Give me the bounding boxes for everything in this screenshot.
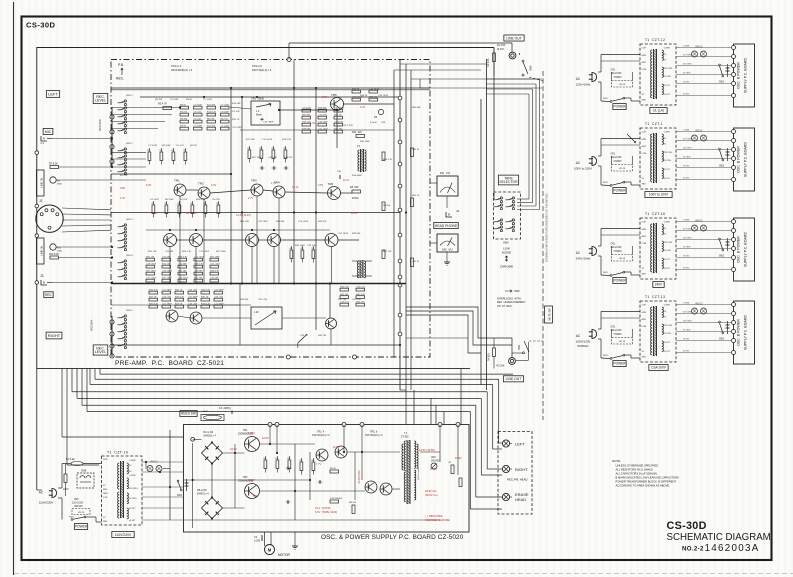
ground at meter [446,252,448,262]
svg-text:C14 10/16: C14 10/16 [298,221,309,223]
svg-text:25V ORG: 25V ORG [129,488,138,490]
svg-text:M2 VU: M2 VU [442,248,452,252]
small components osc board [264,460,267,469]
svg-text:R31 10K: R31 10K [146,257,155,259]
transistor TR3 [251,184,263,196]
svg-text:SW1: SW1 [603,355,609,357]
svg-text:R36 3K: R36 3K [360,95,368,97]
SW4 switch top [519,53,521,55]
REC/PB switch cluster top [124,100,126,102]
svg-text:OSC. B POWER: OSC. B POWER [737,319,741,346]
pre-amp board dashed outline [111,60,430,358]
LINE OUT label top [504,35,524,41]
svg-text:C17 .0022: C17 .0022 [199,251,210,253]
svg-text:R42 100: R42 100 [356,302,365,304]
svg-text:R13 56K: R13 56K [232,103,241,105]
svg-text:( ) INDICATES: ( ) INDICATES [425,514,443,518]
svg-text:T1 CZT-1: T1 CZT-1 [645,122,663,126]
svg-text:(IN4001 x 4: (IN4001 x 4 [204,435,217,438]
svg-text:R40 5.6K: R40 5.6K [356,294,366,296]
svg-text:0.2V: 0.2V [360,106,365,109]
line out top wire [289,42,512,44]
component cluster: rec eq network top right [302,109,311,112]
svg-text:OSC. B POWER: OSC. B POWER [737,62,741,89]
right cluster near TR5 [352,90,361,93]
svg-text:0V T-GRN: 0V T-GRN [683,55,693,57]
svg-text:F1 0.3A: F1 0.3A [66,458,75,461]
svg-text:POWER TRANSFORMER BLOCK IS DIF: POWER TRANSFORMER BLOCK IS DIFFERENT [616,480,677,484]
LINE IN label (right ch) [37,238,45,264]
svg-text:D1 to D4: D1 to D4 [204,431,214,434]
svg-text:R47 22K: R47 22K [383,251,392,253]
svg-text:R41 10K: R41 10K [338,299,347,301]
svg-text:C23 .033: C23 .033 [162,297,172,299]
svg-text:9V ORG: 9V ORG [683,73,691,75]
svg-text:GRN: GRN [103,493,108,495]
supply rail 2 [140,96,400,98]
component cluster: eq bottom1 [146,258,155,261]
svg-text:C21 390P: C21 390P [188,297,198,299]
svg-text:0V VLT: 0V VLT [683,178,690,180]
svg-text:R40 5.6K: R40 5.6K [340,287,350,289]
LINE IN label (left ch) [37,170,45,196]
svg-text:CS-30D: CS-30D [26,21,56,30]
svg-text:R23 47K: R23 47K [284,157,293,159]
svg-text:REED SW: REED SW [181,412,196,416]
svg-text:C6 22P: C6 22P [180,199,188,201]
svg-text:R5 1K: R5 1K [330,468,337,470]
transistor TR1 [174,184,186,196]
svg-text:C31 47/6: C31 47/6 [352,299,362,301]
svg-text:NOTE: NOTE [612,459,620,463]
svg-text:R5 390: R5 390 [155,99,163,101]
component cluster: input coupling [148,152,151,161]
svg-text:PRE-AMP. P.C. BOARD CZ-5021: PRE-AMP. P.C. BOARD CZ-5021 [115,360,224,367]
page scan left edge [13,2,15,575]
svg-text:R45 4.7K: R45 4.7K [383,159,393,161]
svg-text:25V ORG: 25V ORG [664,68,673,70]
svg-text:T1 CZT-10: T1 CZT-10 [107,451,128,455]
svg-text:D5 to D8: D5 to D8 [197,489,207,492]
svg-text:WHT: WHT [642,146,647,148]
svg-text:0.033: 0.033 [254,540,261,543]
svg-text:R39 560: R39 560 [352,233,361,235]
svg-text:R37 1K: R37 1K [175,304,183,306]
svg-text:NOISE: NOISE [502,250,511,254]
svg-text:VR-13: VR-13 [619,341,626,343]
svg-text:18.5V: 18.5V [430,467,437,471]
svg-text:R35 8.2K: R35 8.2K [175,297,185,299]
svg-text:R33 82K: R33 82K [240,299,249,301]
svg-text:9V VLT: 9V VLT [664,342,671,344]
mid ground rail [111,283,406,285]
svg-text:R8 120K: R8 120K [165,199,174,201]
svg-text:T-GRN: T-GRN [683,130,690,132]
cluster near T2 [340,288,349,291]
svg-text:6.3V (TAPE RUN): 6.3V (TAPE RUN) [315,510,337,514]
svg-text:C11 220P: C11 220P [232,127,242,129]
svg-text:C10 3.3P: C10 3.3P [268,157,278,159]
svg-text:C33 .01: C33 .01 [300,335,308,337]
svg-text:R4 1M: R4 1M [190,145,197,147]
MUTE SW label [545,306,553,323]
svg-text:C16 390P: C16 390P [263,122,274,124]
svg-text:SW1: SW1 [603,272,609,274]
LEFT head jack [502,440,509,447]
page scan bottom dotted edge [14,573,793,575]
transistor TR4 [273,186,285,198]
svg-text:240V: 240V [655,283,663,287]
VU meter M2 [437,234,458,252]
svg-text:R26 680: R26 680 [276,221,285,223]
assembly cut dashed line [542,71,544,420]
60V dropper resistor [64,474,67,483]
svg-text:9V ORG: 9V ORG [664,160,672,162]
svg-text:CS-30D: CS-30D [667,520,707,532]
svg-text:240V: 240V [103,459,108,461]
svg-text:110V/220V: 110V/220V [39,501,54,505]
svg-text:RED: RED [642,100,647,102]
svg-text:0.1V (STOP): 0.1V (STOP) [315,506,331,510]
svg-text:C4 .0047: C4 .0047 [150,199,160,201]
svg-text:25V ORG: 25V ORG [683,148,692,150]
svg-text:16.9V: 16.9V [455,456,462,460]
svg-text:R1 6.8K: R1 6.8K [497,45,506,47]
svg-text:C42 47: C42 47 [412,261,420,263]
svg-text:R29 4.7K: R29 4.7K [210,271,220,273]
svg-text:VOLTAGE CHROME: VOLTAGE CHROME [425,518,450,522]
play amp transistor row 2 [164,234,177,247]
svg-text:0V VLT: 0V VLT [664,351,671,353]
svg-text:R9 1K: R9 1K [186,99,193,101]
svg-text:R27 150K: R27 150K [146,271,156,273]
svg-text:C15 33P: C15 33P [178,264,187,266]
svg-text:R8 27K: R8 27K [207,119,215,121]
svg-text:CR1: CR1 [611,70,616,72]
svg-text:25V ORG: 25V ORG [683,64,692,66]
svg-text:D8 650: D8 650 [383,205,391,207]
svg-text:120+0.033: 120+0.033 [611,73,623,75]
svg-text:C17 .0022: C17 .0022 [194,257,205,259]
svg-text:/700WV: /700WV [614,334,623,336]
horizontal connect wires preamp top [111,107,180,109]
svg-text:CSA 100V: CSA 100V [651,366,667,370]
svg-text:SW8: SW8 [81,470,87,473]
svg-text:D10 WG800: D10 WG800 [330,498,343,500]
input pot 560K [50,177,56,183]
svg-text:POWER: POWER [613,362,626,366]
REED SW label [180,411,197,417]
ground near motor [294,532,296,546]
POWER label bottom [74,524,87,530]
wires lower section [111,304,251,306]
svg-text:LEVEL: LEVEL [95,350,106,354]
svg-text:9V VLT: 9V VLT [683,339,690,341]
frame right vertical wire [493,48,495,200]
svg-text:C5 100P: C5 100P [194,126,203,128]
svg-text:5.9V: 5.9V [253,494,259,498]
svg-text:UL (LA): UL (LA) [653,109,664,113]
svg-text:WHT: WHT [642,62,647,64]
svg-text:R35 8.2K: R35 8.2K [149,290,159,292]
svg-text:R19 2.2K: R19 2.2K [282,139,292,141]
svg-text:TR4 to 6: TR4 to 6 [252,64,263,68]
svg-text:C15 33P: C15 33P [162,257,171,259]
svg-text:R38 100: R38 100 [369,97,378,99]
svg-text:RED: RED [642,357,647,359]
bus wires preamp to osc/heads [100,373,513,375]
line out jack bottom [509,358,516,365]
secondary output wires to osc board [142,461,184,463]
svg-text:C23 .033: C23 .033 [188,290,198,292]
svg-text:FNG: FNG [103,489,108,491]
head connector dashed box [498,432,532,515]
svg-text:R18 56K: R18 56K [318,108,327,110]
svg-text:R29 4.7K: R29 4.7K [194,264,204,266]
svg-text:9V VLT: 9V VLT [664,85,671,87]
svg-text:R15 1K: R15 1K [232,119,240,121]
svg-text:100V/120V: 100V/120V [576,340,591,344]
bus right droppers into head connectors [498,379,500,443]
svg-text:ZT-902: ZT-902 [401,436,409,439]
svg-text:0V VLT: 0V VLT [683,351,690,353]
transistor TR6 [328,187,341,200]
svg-text:MUTE SW: MUTE SW [548,308,552,321]
svg-text:CLIP: CLIP [642,48,647,50]
svg-text:VR-13: VR-13 [619,84,626,86]
svg-text:WHT: WHT [642,236,647,238]
svg-text:VR-13: VR-13 [619,258,626,260]
svg-text:WHT: WHT [642,319,647,321]
capacitors osc [287,466,289,470]
svg-text:SCHEMATIC DIAGRAM: SCHEMATIC DIAGRAM [667,532,771,543]
svg-text:M: M [268,548,272,553]
svg-text:GRN: GRN [642,229,647,231]
svg-text:2SC711(E,F) x 2: 2SC711(E,F) x 2 [312,434,330,437]
svg-text:SW1: SW1 [603,182,609,184]
wires to bottom jack [494,337,512,339]
transistor TR2 [198,187,210,199]
svg-text:TR3: TR3 [251,179,257,183]
svg-text:C8 47/6: C8 47/6 [212,199,220,201]
svg-text:C19 10/16: C19 10/16 [178,278,189,280]
svg-text:25V ORG: 25V ORG [683,321,692,323]
svg-text:TR2: TR2 [198,182,204,186]
wires mid amps [186,189,198,191]
svg-text:VR-13: VR-13 [619,168,626,170]
svg-text:J4: J4 [456,209,460,213]
svg-text:11.1V: 11.1V [343,179,350,182]
svg-text:10.0V: 10.0V [262,436,269,440]
selector contacts group1 [500,197,502,199]
svg-text:C19 10/16: C19 10/16 [146,264,157,266]
svg-text:0.6V: 0.6V [322,96,327,99]
input label LEFT [46,91,59,98]
svg-text:C21 390P: C21 390P [214,304,224,306]
svg-text:R30 100K: R30 100K [295,245,305,247]
svg-text:2.7V: 2.7V [248,197,253,200]
caps mid [261,166,263,170]
svg-text:7.7V: 7.7V [316,462,322,466]
svg-text:C13 10/16: C13 10/16 [262,139,273,141]
svg-text:C17 .0022: C17 .0022 [210,264,221,266]
svg-text:CR1: CR1 [611,244,616,246]
component cluster: eq bottom2 dense [149,291,158,294]
svg-text:0.3V: 0.3V [211,184,216,187]
svg-text:SUPPLY P.C. BOARD: SUPPLY P.C. BOARD [744,58,748,94]
svg-text:100V to 220V: 100V to 220V [574,167,592,171]
svg-text:VR-13: VR-13 [78,512,85,514]
svg-text:REC: REC [45,293,52,297]
svg-text:R10 8.2K: R10 8.2K [49,253,59,256]
meter wires [430,182,437,184]
svg-text:R6 390: R6 390 [180,119,188,121]
svg-text:R11 56K: R11 56K [207,105,216,107]
input pot 560K right [50,244,56,250]
svg-text:R43 150: R43 150 [318,335,327,337]
svg-text:AC: AC [39,491,44,495]
svg-text:25V ORG: 25V ORG [664,242,673,244]
svg-text:Y-GRN: Y-GRN [664,305,671,307]
svg-text:IN34A: IN34A [352,197,359,200]
svg-text:9V ORG: 9V ORG [664,333,672,335]
svg-text:RED: RED [642,274,647,276]
verticals into osc board [435,405,437,424]
svg-text:R2 100K: R2 100K [162,145,171,147]
svg-text:P.B.: P.B. [118,63,124,67]
svg-text:INTERLOCKS WITH: INTERLOCKS WITH [497,298,521,301]
svg-text:LINE IN: LINE IN [40,246,44,255]
tape selector dashed box [494,192,521,239]
svg-text:25V ORG: 25V ORG [664,325,673,327]
svg-text:R24 1.5K: R24 1.5K [240,221,250,223]
left bus risers to bottom power [61,368,63,437]
svg-text:R4 220: R4 220 [180,112,188,114]
junction on dashed top [287,58,291,62]
lower channel transistor pair [166,310,178,322]
svg-text:8.8V: 8.8V [152,212,157,215]
svg-text:9V ORG: 9V ORG [664,76,672,78]
rail y174 [111,173,230,175]
svg-text:OSC. B POWER: OSC. B POWER [737,146,741,173]
svg-text:C26 10/25: C26 10/25 [378,95,389,97]
svg-text:C1 10/16: C1 10/16 [148,145,158,147]
svg-text:GRN: GRN [642,55,647,57]
svg-text:3.5V: 3.5V [318,184,323,187]
svg-text:GRN: GRN [642,139,647,141]
svg-text:SW2-4: SW2-4 [126,255,133,257]
svg-text:R29 4.7K: R29 4.7K [178,257,188,259]
svg-text:9V VLT: 9V VLT [683,166,690,168]
svg-text:OH AT REC.: OH AT REC. [497,305,513,308]
svg-text:AC: AC [576,77,581,81]
svg-text:T-GRN: T-GRN [683,303,690,305]
svg-text:GRN: GRN [642,312,647,314]
solder junction dots [230,87,232,89]
ERASE head jack [502,493,509,500]
svg-text:120V 60Hz: 120V 60Hz [576,83,591,87]
svg-text:C9 10/16: C9 10/16 [302,108,312,110]
svg-text:120+0.033: 120+0.033 [72,503,84,505]
rail y230 [146,229,330,231]
svg-text:C25 .033: C25 .033 [258,299,268,301]
svg-text:LINE OUT: LINE OUT [506,36,522,40]
svg-text:C15 33P: C15 33P [194,271,203,273]
svg-text:NO.2-2: NO.2-2 [682,546,704,553]
svg-text:RED: RED [103,521,108,523]
svg-text:ALL RESISTORS IN Ω 1/4W(J): ALL RESISTORS IN Ω 1/4W(J) [616,468,653,472]
svg-text:R8 270K: R8 270K [186,212,197,215]
svg-text:VR2 500K: VR2 500K [91,319,94,331]
component cluster: mid verticals [290,250,293,259]
svg-text:C3 .047: C3 .047 [176,145,184,147]
svg-text:R35 8.2K: R35 8.2K [201,304,211,306]
svg-text:R52 1K: R52 1K [412,195,420,197]
svg-text:240V 50Hz: 240V 50Hz [576,257,591,261]
svg-text:R28 47K: R28 47K [318,221,327,223]
long vertical buses in preamp [230,88,232,284]
svg-text:Mixer: Mixer [256,114,262,117]
svg-text:C7 .0047: C7 .0047 [221,105,231,107]
svg-text:R31 10K: R31 10K [148,251,157,253]
svg-text:C15 33P: C15 33P [210,278,219,280]
input feed wires [111,152,146,154]
svg-text:R3 4.7K: R3 4.7K [158,103,167,106]
svg-text:25V ORG: 25V ORG [683,238,692,240]
svg-text:R3 20K: R3 20K [497,365,505,368]
svg-text:SW2-2: SW2-2 [126,143,133,145]
svg-text:REC./PB. HEAD: REC./PB. HEAD [507,478,528,482]
svg-text:C23 .033: C23 .033 [188,304,198,306]
MIC label left [43,128,53,134]
svg-text:C15 33P: C15 33P [165,251,174,253]
svg-text:120+0.033: 120+0.033 [611,247,623,249]
svg-text:9V VLT: 9V VLT [664,169,671,171]
svg-text:R20 330: R20 330 [302,115,311,117]
svg-text:18.9V ALL: 18.9V ALL [425,489,438,493]
svg-text:R10 8.2K: R10 8.2K [196,199,206,201]
svg-text:0V VLT: 0V VLT [129,520,136,522]
svg-text:1.4V: 1.4V [310,122,315,125]
svg-text:TR6: TR6 [328,182,334,186]
svg-text:POR: POR [103,497,108,499]
bias switch arm [298,334,307,343]
svg-text:R22 1K: R22 1K [334,115,342,117]
svg-text:J.1: J.1 [40,141,44,145]
frame-left junctions [35,151,39,155]
svg-text:16.9V: 16.9V [230,447,237,451]
junctions on osc top edge [268,423,272,427]
svg-text:9V VLT: 9V VLT [683,256,690,258]
svg-text:VR2: VR2 [431,456,436,459]
svg-text:R14 6.2K: R14 6.2K [207,112,217,114]
svg-text:CR1: CR1 [611,154,616,156]
svg-text:R9 1K: R9 1K [180,105,187,107]
dashed link bottom [529,340,543,342]
svg-text:T1 CZT-13: T1 CZT-13 [645,295,665,299]
svg-text:R37 1K: R37 1K [175,290,183,292]
svg-text:LEFT: LEFT [48,92,58,97]
svg-text:POWER: POWER [75,525,88,529]
svg-text:POWER: POWER [613,189,626,193]
svg-text:C6 .022: C6 .022 [194,112,202,114]
svg-text:R31 10K: R31 10K [178,271,187,273]
bias trap box lower [251,307,282,329]
svg-text:C13 47/6: C13 47/6 [318,115,328,117]
svg-text:30G430: 30G430 [431,460,440,463]
switch cluster 2 [124,148,126,150]
svg-text:SW4: SW4 [518,344,521,350]
